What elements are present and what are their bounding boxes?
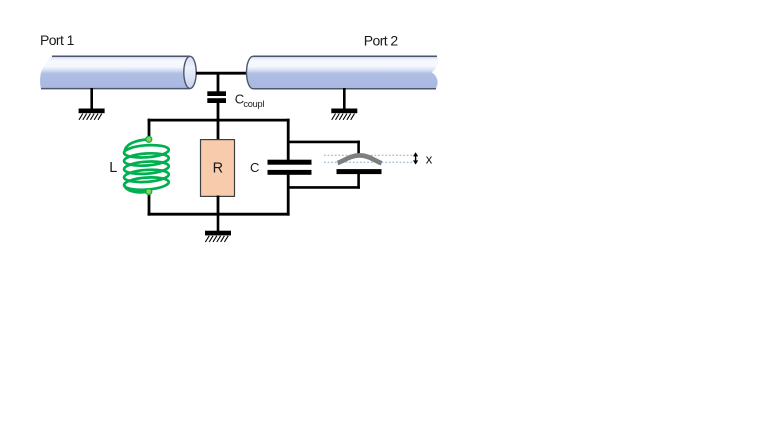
inductor terminal node top <box>146 136 152 142</box>
capacitor C plates <box>268 160 312 175</box>
svg-text:C: C <box>250 160 259 175</box>
label L <box>109 160 117 176</box>
ground G2 (under Port 2) <box>331 88 357 120</box>
wire MEMS branch top <box>287 141 360 144</box>
svg-text:Port 2: Port 2 <box>364 33 399 49</box>
wire right branch bottom <box>287 174 290 216</box>
label Port 1 <box>40 32 75 48</box>
displacement arrow x <box>413 152 418 164</box>
svg-text:x: x <box>426 151 433 166</box>
inductor L coil <box>124 140 170 193</box>
transmission line T2 (Port 2 coax cylinder) <box>247 56 438 88</box>
wire resonator bottom rail <box>148 213 290 216</box>
MEMS movable top plate (membrane) <box>338 155 382 163</box>
inductor terminal node bottom <box>146 189 152 195</box>
transmission line T1 (Port 1 coax cylinder) <box>40 56 196 88</box>
wire MEMS bottom vertical <box>357 174 360 189</box>
svg-text:Port 1: Port 1 <box>40 32 75 48</box>
wire Ccoupl to resonator top <box>217 103 220 122</box>
wire MEMS top vertical <box>357 141 360 155</box>
ground G3 (resonator ground) <box>205 213 231 242</box>
svg-text:coupl: coupl <box>243 99 264 109</box>
capacitor Ccoupl plates <box>207 91 226 103</box>
wire junction to coupling capacitor <box>217 73 220 92</box>
label Ccoupl <box>235 91 265 109</box>
wire resonator top rail <box>148 119 290 122</box>
svg-text:L: L <box>109 160 117 176</box>
resistor R <box>201 140 235 197</box>
wire left branch bottom <box>148 192 151 216</box>
MEMS fixed bottom plate <box>337 169 382 174</box>
wire left branch top <box>148 119 151 140</box>
wire between ports <box>196 72 248 75</box>
label Port 2 <box>364 33 399 49</box>
svg-text:R: R <box>213 161 223 177</box>
wire resistor branch top <box>217 119 220 141</box>
wire MEMS branch bottom <box>287 186 360 189</box>
wire resistor branch bottom <box>217 196 220 216</box>
ground G1 (under Port 1) <box>79 88 105 120</box>
label C <box>250 160 259 175</box>
label x <box>426 151 433 166</box>
wire right branch top <box>287 119 290 161</box>
dashed guide lines (membrane travel) <box>324 155 413 162</box>
